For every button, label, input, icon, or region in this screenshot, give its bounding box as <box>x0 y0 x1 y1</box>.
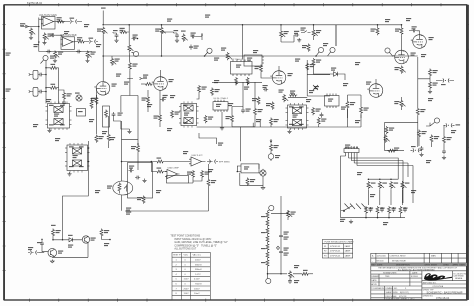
svg-text:2: 2 <box>176 264 178 266</box>
disclaimer text <box>378 267 458 272</box>
capacitor C22 <box>412 29 417 33</box>
wire <box>113 32 129 33</box>
wire <box>75 41 87 43</box>
jack TP <box>268 152 274 161</box>
diamond node <box>277 246 280 249</box>
wire <box>121 121 138 211</box>
svg-text:200V: 200V <box>184 288 190 290</box>
switch SW1 wiper <box>341 206 353 212</box>
ground <box>42 41 46 45</box>
junction dots <box>368 178 370 180</box>
effects return resistor R51 <box>388 149 396 152</box>
pot P2 <box>54 51 60 59</box>
resistor R22 <box>63 92 66 100</box>
connector CN1 <box>68 20 79 24</box>
signatures block <box>371 272 418 287</box>
svg-text:TEST PT: TEST PT <box>173 255 182 257</box>
node label B <box>207 48 212 53</box>
wire <box>114 96 121 122</box>
svg-text:F3: F3 <box>324 256 327 258</box>
svg-text:SIGNATURES: SIGNATURES <box>383 272 397 275</box>
resistor R30 <box>231 115 234 123</box>
connector CN6 <box>411 148 422 152</box>
tunell pot P15 <box>270 139 272 143</box>
capacitor C25 <box>420 146 424 151</box>
node label A <box>133 51 138 56</box>
IC U3 box <box>77 109 86 117</box>
B+ rail 1 <box>103 11 402 47</box>
cathode resistor R17 <box>95 97 98 105</box>
pot P18 <box>312 29 318 37</box>
wire <box>39 18 41 20</box>
resistor R77 <box>388 206 391 214</box>
resistor R78 <box>399 206 402 214</box>
resistor R60 <box>246 178 249 186</box>
svg-text:0: 0 <box>185 284 187 286</box>
svg-text:1.07V: 1.07V <box>195 274 201 276</box>
ref dwg row <box>423 282 444 288</box>
capacitor C5b <box>38 90 43 94</box>
switch routing wires <box>341 156 414 218</box>
company logo <box>424 273 452 280</box>
capacitor C16 <box>241 108 245 113</box>
svg-text:SHEET SIZE: SHEET SIZE <box>386 292 399 294</box>
relay contact K4a <box>184 105 193 111</box>
input connector CN8 <box>28 251 39 255</box>
svg-text:F1: F1 <box>324 246 327 248</box>
svg-text:DRWG NO.: DRWG NO. <box>423 295 434 297</box>
relay contact K2b <box>72 160 81 166</box>
svg-text:U4 DL-TDA-L2: U4 DL-TDA-L2 <box>214 97 229 100</box>
feed wire <box>418 57 430 123</box>
svg-text:5: 5 <box>176 279 178 281</box>
title block outline <box>371 253 467 299</box>
cathode resistor R43 <box>400 66 406 74</box>
resistor R55 <box>156 170 164 173</box>
relay contact K4b <box>184 118 193 124</box>
svg-text:1: 1 <box>176 260 178 262</box>
line out section verticals <box>384 123 417 151</box>
resistor R44 <box>429 69 432 77</box>
svg-text:DATE: DATE <box>460 264 466 267</box>
ground <box>127 130 131 134</box>
ground <box>175 38 179 42</box>
resistor R49 <box>430 135 433 143</box>
input jack J1 <box>21 25 39 28</box>
svg-text:A: A <box>372 255 374 258</box>
svg-text:EFF SEND: EFF SEND <box>219 162 230 164</box>
jack label TUNER <box>6 89 11 92</box>
ground <box>349 220 353 224</box>
resistor R57 <box>207 179 210 187</box>
wire master row <box>271 210 288 214</box>
resistor R25 <box>95 135 98 143</box>
resistor R15 <box>147 90 149 112</box>
bias chain wire <box>288 60 330 98</box>
svg-text:APPD: APPD <box>453 264 459 267</box>
pot P5 on rail <box>226 52 232 60</box>
pot P8 LINE OUT <box>384 135 390 143</box>
svg-text:150V: 150V <box>184 293 190 295</box>
svg-text:DFTR: DFTR <box>425 265 431 267</box>
wire <box>92 95 97 134</box>
relay K3 pin ticks <box>291 103 303 130</box>
input jack J2 <box>29 70 38 79</box>
relay contact K1b <box>54 119 63 125</box>
svg-text:380mV: 380mV <box>195 269 202 271</box>
footswitch circuit: resistor R62 <box>52 229 55 237</box>
op-amp U1A <box>42 17 56 30</box>
resistor R40 <box>317 117 320 125</box>
svg-text:NEVADA: NEVADA <box>455 277 463 280</box>
pot P6 <box>280 30 286 38</box>
resistor R30b <box>204 115 207 123</box>
ground <box>67 172 71 176</box>
supply stub to U2 <box>242 25 244 60</box>
lamp DS1 <box>76 95 82 101</box>
ground <box>261 186 265 189</box>
bias test point <box>394 148 399 151</box>
svg-text:DATE: DATE <box>412 272 418 275</box>
svg-text:3: 3 <box>176 269 178 271</box>
connector CN7 <box>207 160 218 164</box>
resistor R20 <box>235 77 238 85</box>
wire feeder <box>128 25 130 44</box>
svg-text:DATE: DATE <box>371 279 377 282</box>
feedback resistor R56 <box>192 170 195 178</box>
relay K1 pin ticks <box>51 102 67 131</box>
svg-text:DESCRIPTION: DESCRIPTION <box>396 265 410 267</box>
plate resistor R10 <box>102 27 108 35</box>
wire <box>125 164 209 211</box>
capacitor C14 <box>112 112 116 117</box>
pot P7 <box>283 94 289 102</box>
pot P14 <box>401 181 407 189</box>
ground <box>419 153 423 157</box>
svg-text:4: 4 <box>176 274 178 276</box>
resistor R36 <box>271 102 274 110</box>
resistor R47 <box>385 126 388 134</box>
resistor R46 <box>416 108 419 116</box>
capacitor C43 <box>403 207 407 212</box>
triode V2A <box>270 71 286 85</box>
svg-text:0: 0 <box>185 264 187 266</box>
DI transformer T1 <box>237 164 259 173</box>
svg-text:DATE: DATE <box>377 264 383 267</box>
capacitor C20 <box>320 113 324 118</box>
relay K2 pin ticks <box>70 143 82 173</box>
svg-text:380mV: 380mV <box>195 264 202 266</box>
divider chain resistor string R70 <box>266 211 269 271</box>
svg-text:U6B TL072: U6B TL072 <box>192 155 204 157</box>
capacitor C28 <box>129 169 134 173</box>
resistor R58 <box>142 196 145 204</box>
relay K4 pin ticks <box>184 101 192 127</box>
svg-text:SCALE: NONE SHEET 1 OF 2: SCALE: NONE SHEET 1 OF 2 <box>386 297 416 300</box>
svg-text:REV: REV <box>371 265 376 267</box>
capacitor C4 <box>76 50 81 54</box>
svg-text:MAN: MAN <box>431 255 436 258</box>
node TP circle bottom <box>266 278 271 283</box>
diode D2 <box>67 238 76 242</box>
resistor R25b <box>108 116 110 148</box>
resistor R33b <box>306 63 309 71</box>
relay contact K1a <box>54 107 63 113</box>
ground <box>85 59 89 63</box>
wire lower bus <box>39 51 92 53</box>
svg-text:DRAWN NO.: DRAWN NO. <box>386 287 398 290</box>
B+ rail 2 <box>103 55 418 57</box>
svg-text:U2 TDA-L2: U2 TDA-L2 <box>231 58 243 61</box>
capacitor C19 <box>263 88 268 92</box>
relay K3 <box>286 105 309 128</box>
svg-text:1AMP: 1AMP <box>345 250 351 253</box>
capacitor C40 <box>369 207 373 212</box>
resistor R37 <box>312 107 315 115</box>
svg-text:8: 8 <box>176 293 178 295</box>
capacitor C34 <box>279 250 283 255</box>
capacitor C9 <box>175 33 179 38</box>
svg-text:8/15/00: 8/15/00 <box>411 276 419 278</box>
svg-text:075C0790A: 075C0790A <box>433 285 444 288</box>
node label C <box>318 47 323 52</box>
svg-text:F2: F2 <box>324 251 327 253</box>
svg-text:TMS: TMS <box>385 276 390 278</box>
svg-text:INITIAL ISSUE: INITIAL ISSUE <box>392 259 406 262</box>
svg-text:10mV: 10mV <box>194 288 200 290</box>
resistor R28 <box>198 85 201 93</box>
capacitor C33 <box>279 234 283 239</box>
wire <box>240 173 263 186</box>
wire <box>53 237 82 240</box>
long bus wire <box>197 126 361 128</box>
pot P1 GAIN <box>43 33 49 41</box>
revision header row <box>371 263 467 266</box>
resistor R21 <box>246 77 249 85</box>
svg-text:APVD: APVD <box>371 283 377 286</box>
svg-text:0: 0 <box>185 260 187 262</box>
resistor R38 <box>346 101 349 109</box>
grid resistor R16 <box>145 83 153 86</box>
svg-text:4.50V: 4.50V <box>194 279 200 281</box>
pot P11 <box>367 181 373 189</box>
resistor R39 <box>360 106 363 114</box>
wire <box>204 161 212 163</box>
resistor R29 <box>211 88 214 96</box>
trimmer VR1 <box>314 86 319 89</box>
svg-text:VDC: VDC <box>184 255 189 257</box>
wire <box>160 91 199 128</box>
test point notes <box>170 235 227 251</box>
svg-text:VAC rms: VAC rms <box>193 254 201 257</box>
resistor R45 <box>429 81 432 89</box>
connector CN3 <box>244 55 264 66</box>
pot P16 <box>400 100 406 108</box>
triode V3B <box>393 50 409 64</box>
connector CN4 <box>441 79 452 83</box>
resistor R3 <box>57 20 65 23</box>
ground <box>220 126 224 130</box>
relay contact K3a <box>292 108 301 114</box>
node label C2 <box>330 47 335 52</box>
resistor R27 <box>159 114 162 122</box>
capacitor C3 <box>46 50 51 54</box>
node TP circle top <box>269 205 274 210</box>
svg-text:075F18-01: 075F18-01 <box>330 256 341 258</box>
wire jack bus <box>43 68 58 104</box>
svg-text:10mV: 10mV <box>194 293 200 295</box>
resistor R27b <box>171 110 174 118</box>
relay K1 <box>46 104 72 129</box>
triode V2B <box>367 84 383 98</box>
grid stopper arrow <box>127 77 147 79</box>
svg-text:075C18-04: 075C18-04 <box>436 296 450 300</box>
logo side text <box>454 272 468 279</box>
node label F <box>43 55 48 60</box>
svg-text:0: 0 <box>185 269 187 271</box>
svg-text:U1A TL072 GAIN: U1A TL072 GAIN <box>39 14 57 17</box>
plate resistor R41 <box>376 27 379 35</box>
wire <box>336 25 361 118</box>
ground <box>29 36 33 40</box>
resistor R50 <box>443 136 446 144</box>
input jack J3 <box>29 87 38 96</box>
pot P12 <box>378 181 384 189</box>
pot P9 MASTER <box>287 210 293 218</box>
plate resistor R42 <box>400 27 403 35</box>
fader F1 <box>103 106 110 127</box>
triode V1A <box>94 82 110 96</box>
svg-text:U1B TL072 BUF: U1B TL072 BUF <box>60 35 77 37</box>
svg-text:20mV: 20mV <box>195 260 201 262</box>
pot P3 <box>86 51 92 59</box>
node V+ <box>101 8 106 9</box>
pot P13 <box>390 181 396 189</box>
op-amp U6A <box>165 170 180 179</box>
IC U2 box <box>231 60 253 77</box>
fuse chart <box>322 239 352 258</box>
diode D1 <box>330 72 341 76</box>
svg-text:REF DWG NO.: REF DWG NO. <box>423 282 437 284</box>
ground <box>287 130 291 134</box>
feedback capacitor C31 <box>40 241 44 246</box>
cathode resistor R35 <box>257 97 260 105</box>
svg-text:ALL BUTTONS OUT: ALL BUTTONS OUT <box>174 248 196 251</box>
jack label INPUT <box>6 53 11 56</box>
plate resistor R14 <box>160 27 166 35</box>
svg-text:SCHEMATIC - BASS PREAMP: SCHEMATIC - BASS PREAMP <box>427 290 463 294</box>
capacitor C2 <box>51 33 56 37</box>
connector CN2 <box>87 40 98 44</box>
resistor R63 <box>100 229 103 237</box>
svg-text:DRAWN: DRAWN <box>371 275 379 278</box>
op-amp U1B <box>61 37 75 50</box>
resistor R26 <box>137 145 140 153</box>
capacitor C42 <box>392 207 396 212</box>
relay K4 <box>179 103 199 125</box>
svg-text:B(11X17): B(11X17) <box>400 292 409 294</box>
bottom-left rows <box>371 287 415 300</box>
wire <box>56 21 83 23</box>
svg-text:155V: 155V <box>184 279 190 281</box>
svg-text:8/15/00: 8/15/00 <box>377 260 385 262</box>
compressor cell box <box>128 163 153 199</box>
svg-text:1AMP: 1AMP <box>345 255 351 258</box>
switch S2 <box>301 31 311 33</box>
svg-text:12/1/2000: 12/1/2000 <box>377 256 387 258</box>
svg-text:075F02-01: 075F02-01 <box>330 246 341 248</box>
resistor R31 <box>254 108 257 116</box>
resistor R32 <box>270 118 273 126</box>
svg-text:TOLERANCE: TOLERANCE <box>371 287 384 290</box>
transistor Q1 <box>82 236 89 243</box>
capacitor C5a <box>38 73 43 77</box>
pot P10 <box>289 271 295 279</box>
capacitor C10 <box>191 35 196 39</box>
capacitor C7 <box>132 37 137 41</box>
svg-text:ENGR: ENGR <box>431 265 437 267</box>
relay contact K3b <box>292 120 301 126</box>
resistor R34 <box>260 65 263 73</box>
svg-text:U6A COMP: U6A COMP <box>168 166 180 169</box>
wire input bus <box>38 18 40 52</box>
top-right rail stubs <box>378 25 420 35</box>
svg-text:FUSE INSTALLATION CHART: FUSE INSTALLATION CHART <box>325 240 355 243</box>
svg-text:B.C. AUDIO INC. ALL RIGHTS RES: B.C. AUDIO INC. ALL RIGHTS RESERVED <box>398 269 435 272</box>
LDR opto OC1 <box>113 181 133 195</box>
pot P-pad <box>30 28 36 36</box>
wire <box>212 82 262 85</box>
pot P17 <box>111 58 117 66</box>
resistor R71 <box>301 272 309 275</box>
capacitor C6 <box>115 33 119 38</box>
svg-text:760mV: 760mV <box>195 284 202 286</box>
resistor R34b <box>289 94 297 97</box>
capacitor C11 <box>189 45 193 50</box>
triode V1B <box>152 77 168 91</box>
svg-text:2AMP: 2AMP <box>345 245 351 248</box>
misc value labels <box>28 18 456 283</box>
svg-text:CHKD: CHKD <box>443 265 449 267</box>
svg-text:0: 0 <box>185 274 187 276</box>
svg-text:7: 7 <box>176 288 178 290</box>
wire emitter bus <box>52 244 88 257</box>
resistor R12 <box>128 62 131 70</box>
lamp DS2 <box>260 170 266 176</box>
relay K2 <box>65 145 90 171</box>
wire long feeder <box>121 96 138 171</box>
ground <box>297 38 301 42</box>
resistor R75 <box>365 206 368 214</box>
ground <box>47 129 51 133</box>
capacitor C5c <box>62 100 66 105</box>
resistor R33 <box>312 58 315 66</box>
capacitor C35 <box>288 279 292 284</box>
ground <box>53 59 57 63</box>
resistor R11 <box>120 31 128 34</box>
header CN9 <box>344 147 359 166</box>
relay contact K2a <box>72 148 81 154</box>
node label D <box>385 48 390 53</box>
ground <box>428 90 432 94</box>
ground <box>50 260 54 263</box>
test point table <box>172 252 210 300</box>
wire tube bias feed <box>280 196 282 274</box>
node label E <box>434 118 439 123</box>
capacitor C15 <box>161 98 166 102</box>
transistor Q2 <box>48 248 57 257</box>
capacitor C29 <box>135 176 140 180</box>
